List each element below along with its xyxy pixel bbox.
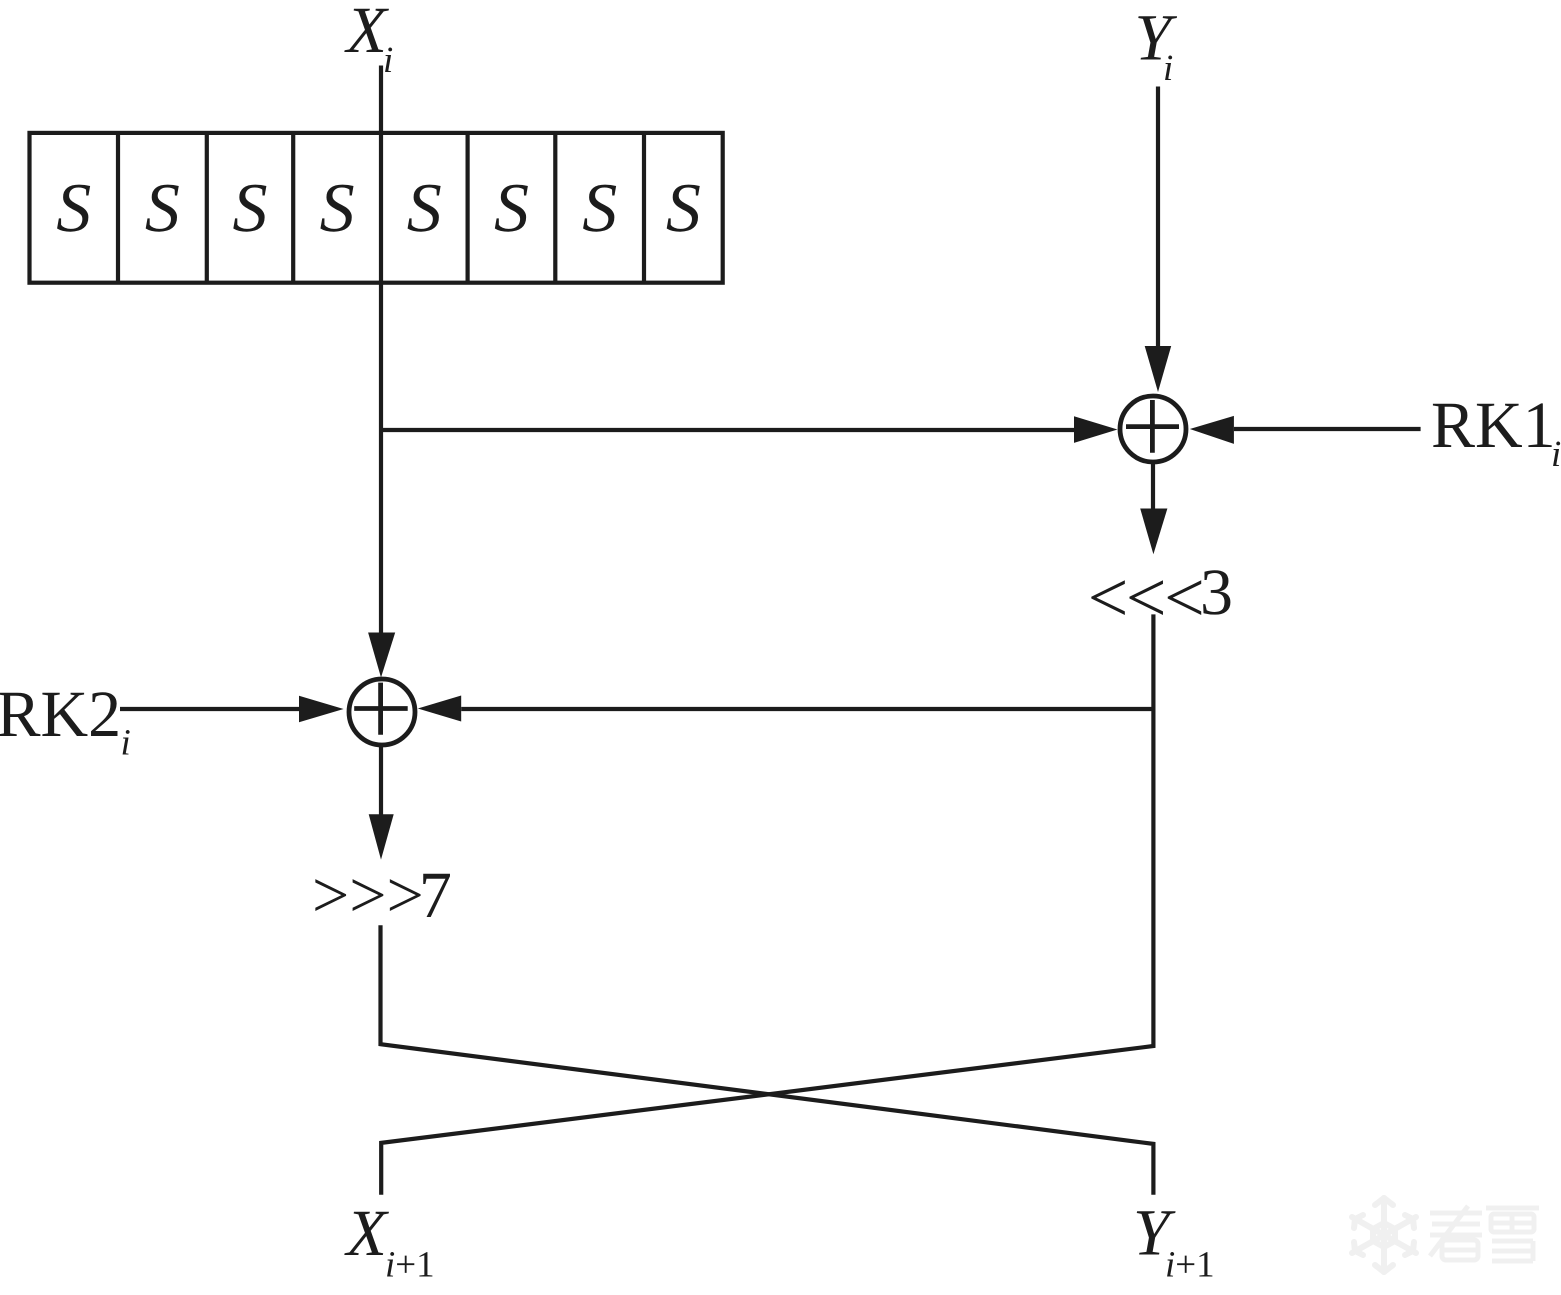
svg-text:<: < (1126, 558, 1167, 638)
svg-text:3: 3 (1200, 556, 1233, 629)
svg-text:S: S (320, 170, 355, 247)
S-box row (30, 133, 723, 283)
svg-text:S: S (582, 170, 617, 247)
wire RK2 horizontal (120, 707, 300, 711)
label RK1_i (1431, 389, 1561, 475)
xor node XOR2 (349, 679, 415, 745)
arrow into XOR1 left (1074, 416, 1118, 443)
wire XOR1 bottom (1151, 464, 1155, 509)
svg-text:S: S (666, 170, 701, 247)
wire X to XOR1 horizontal (381, 428, 1075, 432)
watermark kanxue logo (1352, 1198, 1416, 1272)
arrow into XOR1 right (1190, 416, 1234, 444)
label Y_i+1 (1133, 1197, 1215, 1286)
arrow into XOR2 top (368, 633, 395, 678)
arrow out of XOR1 down (1140, 509, 1167, 555)
watermark char kan (1430, 1206, 1482, 1260)
svg-text:RK1: RK1 (1431, 389, 1556, 462)
svg-text:i+1: i+1 (1165, 1245, 1215, 1286)
wire cross horizontal to XOR2 (461, 707, 1153, 711)
arrow into XOR1 top (1145, 346, 1172, 392)
arrow into XOR2 left (299, 696, 344, 723)
svg-text:i: i (1551, 434, 1561, 475)
svg-text:S: S (407, 170, 442, 247)
wire XOR2 bottom (379, 747, 383, 815)
svg-text:S: S (145, 170, 180, 247)
svg-text:i+1: i+1 (385, 1245, 435, 1286)
svg-text:X: X (344, 1197, 390, 1270)
wire X vertical (379, 66, 383, 633)
label Y_i (1135, 2, 1178, 90)
svg-text:S: S (494, 170, 529, 247)
svg-text:>>>7: >>>7 (312, 859, 452, 932)
label X_i+1 (344, 1197, 435, 1286)
svg-text:<: < (1164, 558, 1205, 638)
svg-text:i: i (121, 723, 131, 764)
wire right vertical with cross diagonal to bottom left (381, 614, 1153, 1194)
svg-text:i: i (1163, 48, 1173, 89)
label RK2_i (0, 678, 131, 764)
watermark char xue (1486, 1208, 1539, 1261)
svg-text:<: < (1088, 558, 1129, 638)
svg-text:S: S (56, 170, 91, 247)
arrow into XOR2 right (418, 696, 461, 722)
arrow out of XOR2 down (369, 814, 394, 859)
S-box labels S (56, 170, 701, 247)
xor node XOR1 (1120, 396, 1186, 462)
wire left vertical with cross diagonal to bottom right (381, 925, 1154, 1195)
svg-text:RK2: RK2 (0, 678, 121, 751)
svg-text:S: S (233, 170, 268, 247)
wire RK1 horizontal (1234, 427, 1421, 431)
wire Y vertical (1156, 87, 1160, 347)
label X_i (344, 0, 394, 81)
svg-text:i: i (383, 40, 393, 81)
